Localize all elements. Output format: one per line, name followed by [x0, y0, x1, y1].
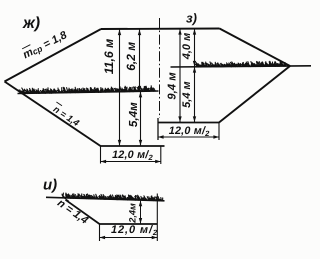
top crest line — [101, 28, 220, 31]
left bottom dimension line 12,0 м/2 — [101, 160, 161, 163]
lower figure bottom dimension line 12,0 м/2 — [100, 236, 158, 239]
right upper slope line — [220, 29, 291, 67]
svg-text:6,2 м: 6,2 м — [124, 42, 138, 71]
left ground hatching — [18, 86, 155, 94]
dimension line 9,4 м — [178, 29, 181, 122]
svg-text:12,0 м/2: 12,0 м/2 — [112, 149, 153, 162]
right lower slope line — [219, 66, 290, 123]
dimension label 9,4 м — [167, 72, 179, 100]
lower figure ground line — [46, 197, 165, 201]
right bottom dimension line 12,0 м/2 — [158, 135, 219, 138]
lower figure ground hatching — [62, 193, 163, 201]
dimension label 5,4 м (left lower) — [127, 102, 140, 127]
dimension line 5,4 м (left lower) — [139, 92, 142, 146]
lower figure slope line n = 1,4 — [66, 200, 100, 224]
left upper slope line (m_cp = 1.8) — [5, 29, 102, 82]
svg-text:5,4 м: 5,4 м — [181, 81, 193, 108]
dimension line 5,4 м (right lower) — [193, 67, 196, 122]
slope value label m_cp = 1,8 — [21, 28, 70, 62]
svg-text:ж): ж) — [22, 15, 40, 32]
lower figure right edge vertical — [156, 194, 158, 242]
right ground line with extension beyond tip — [171, 66, 312, 67]
svg-text:и): и) — [43, 177, 57, 194]
left lower slope line (n = 1.4) — [5, 82, 101, 147]
left bottom line — [101, 145, 165, 147]
svg-text:5,4м: 5,4м — [127, 102, 140, 127]
svg-text:12,0 м/2: 12,0 м/2 — [169, 125, 210, 138]
dimension label 6,2 м — [124, 42, 138, 71]
lower figure left extension edge — [99, 224, 101, 241]
left bottom-width extension edges — [101, 146, 161, 164]
lower figure bottom line — [100, 223, 158, 225]
dimension label 5,4 м (right lower) — [181, 81, 193, 108]
svg-text:2,4м: 2,4м — [128, 203, 138, 224]
dimension line 2,4 м — [139, 201, 142, 224]
svg-text:4,0 м: 4,0 м — [181, 33, 193, 61]
slope value label n = 1,4 — [50, 102, 82, 128]
dimension label 4,0 м — [181, 33, 193, 61]
svg-text:з): з) — [186, 11, 197, 26]
right bottom line — [158, 122, 220, 124]
dimension line 6,2 м — [138, 30, 141, 92]
right bottom-width left extension edge — [157, 118, 159, 140]
svg-text:9,4 м: 9,4 м — [167, 72, 179, 100]
svg-text:11,6 м: 11,6 м — [102, 39, 116, 75]
dimension label 11,6 м — [102, 39, 116, 75]
dimension line 4,0 м — [193, 29, 196, 67]
axis of symmetry (dash-dot centerline) — [159, 18, 161, 118]
svg-text:12,0 м/2: 12,0 м/2 — [111, 224, 158, 237]
lower figure slope label n = 1,4 — [55, 197, 91, 227]
dimension line 11,6 м — [118, 30, 121, 146]
dimension label 2,4 м — [128, 203, 138, 224]
left ground line — [18, 91, 159, 94]
right ground hatching — [195, 61, 286, 67]
right bottom-width extension edge — [218, 123, 220, 141]
